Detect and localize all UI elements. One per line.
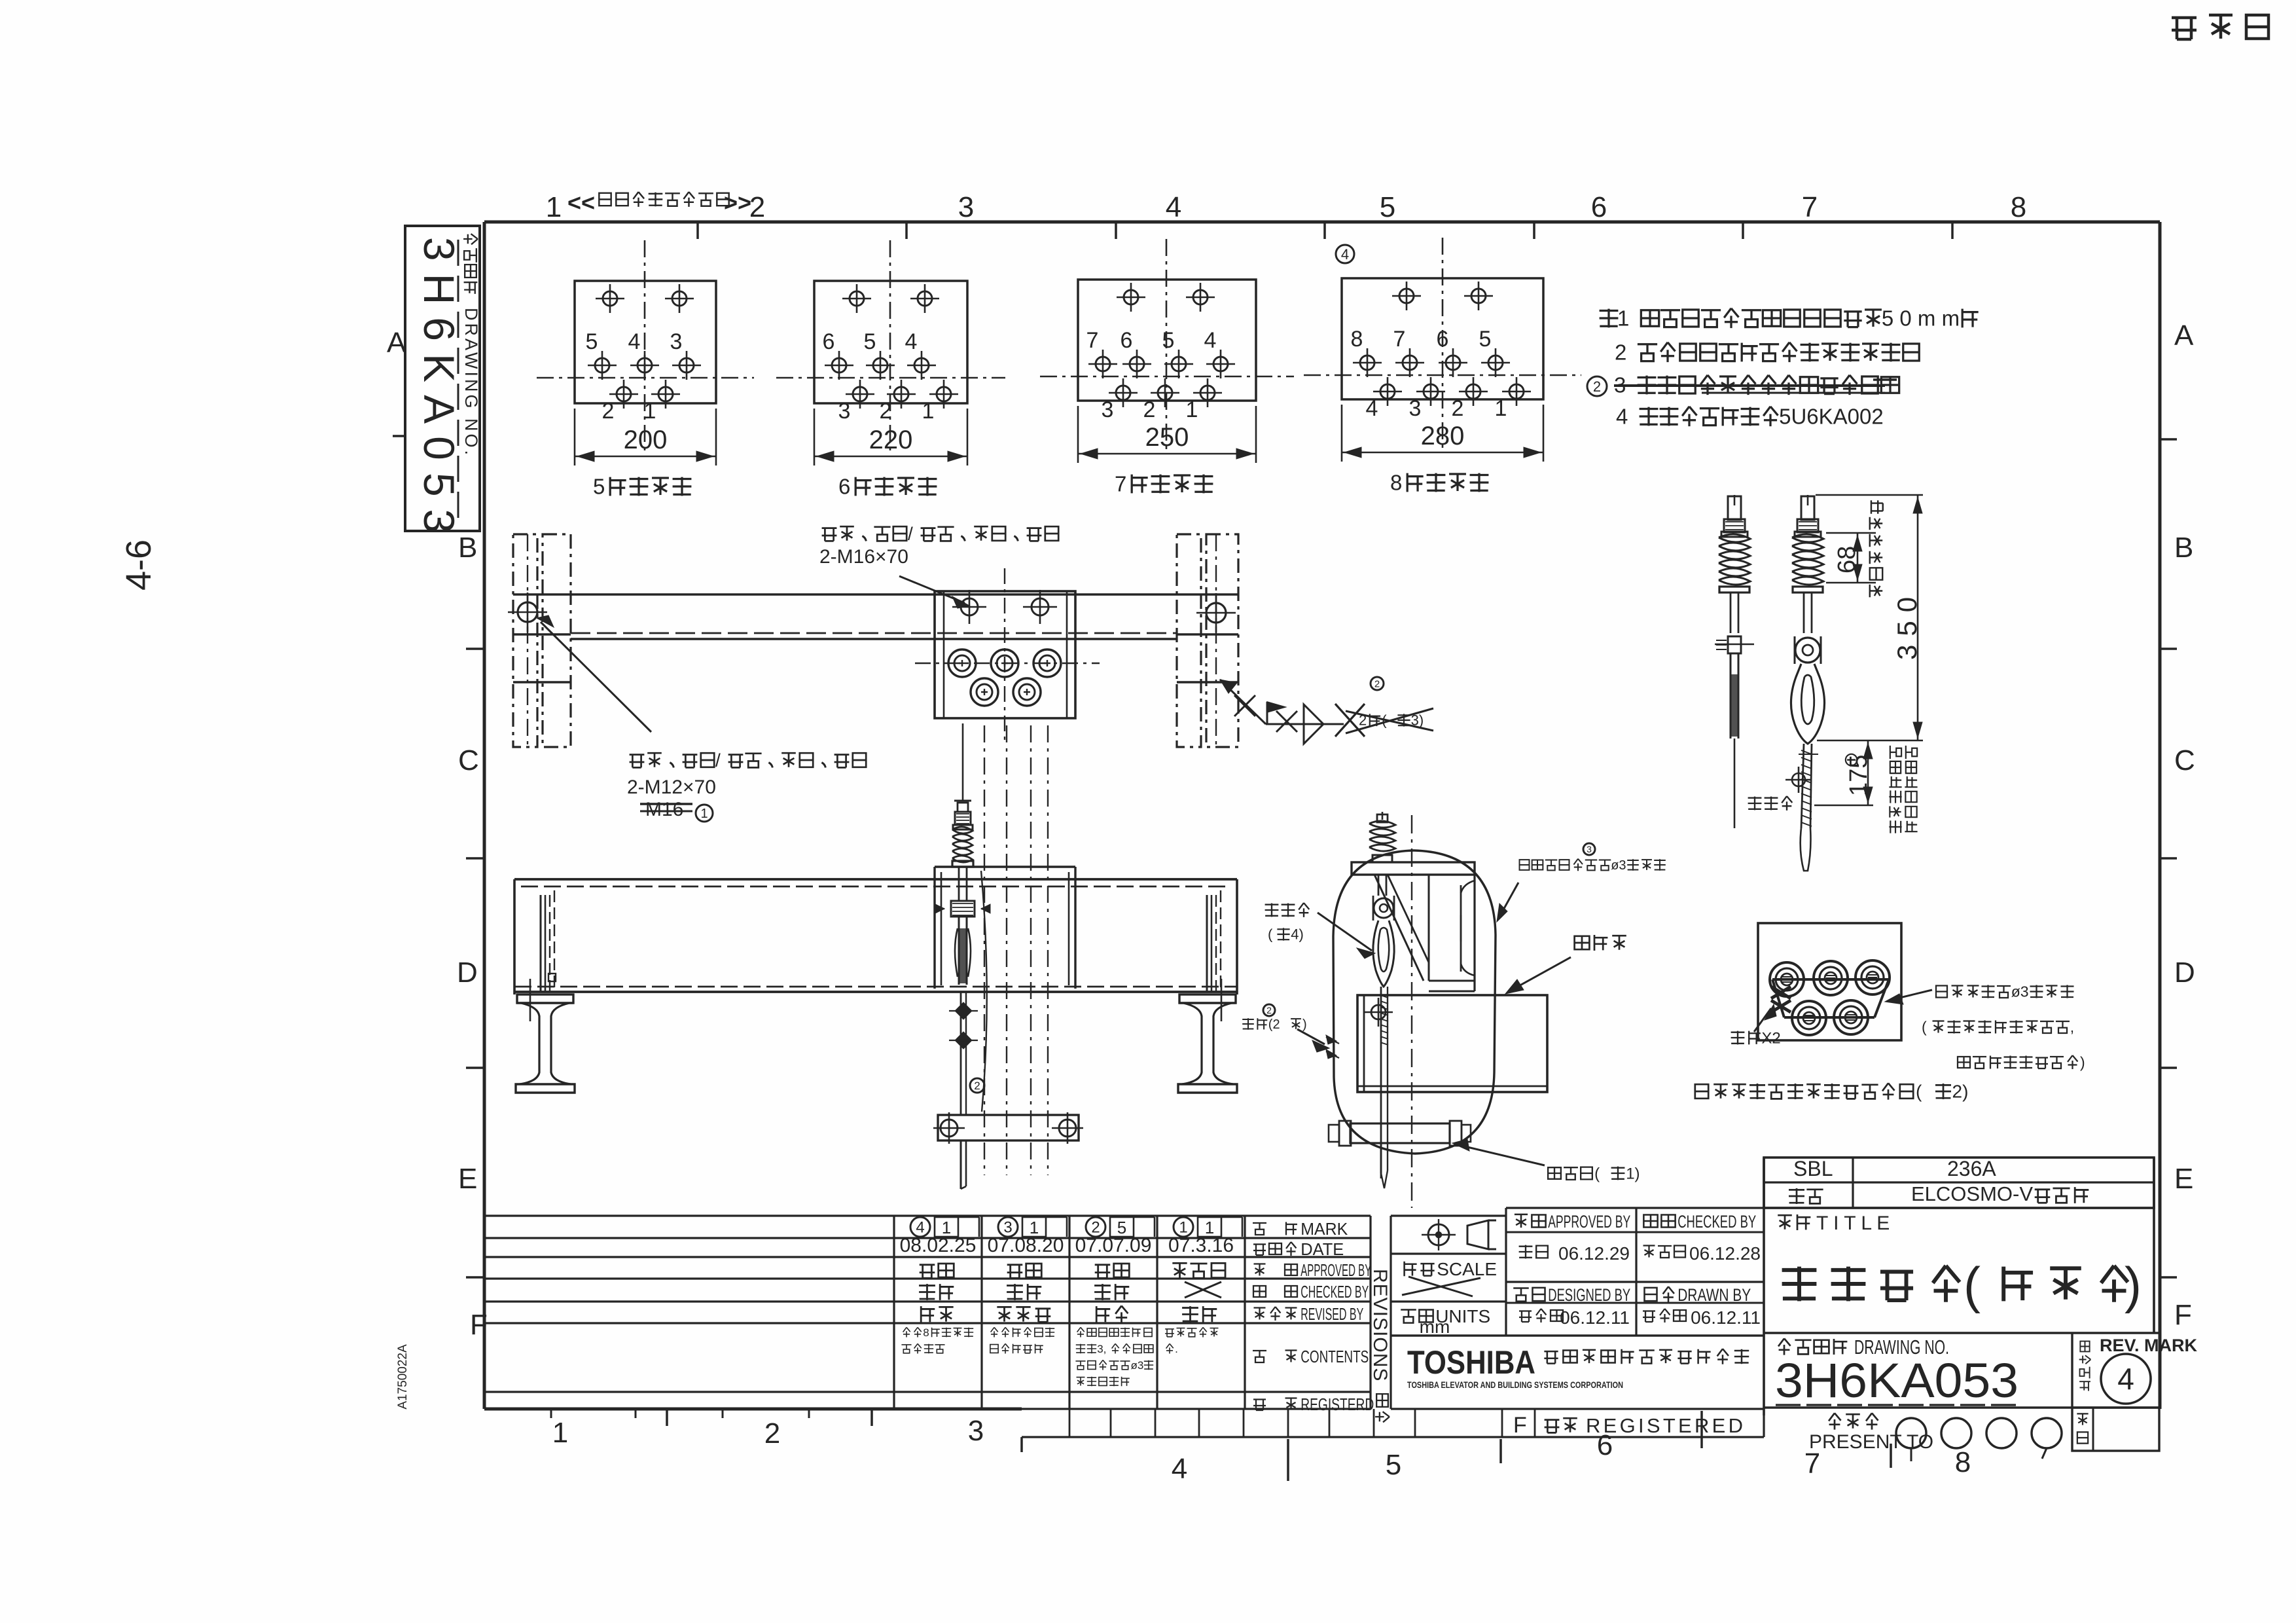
svg-text:/: / — [715, 750, 721, 771]
svg-text:): ) — [1302, 1017, 1307, 1032]
svg-text:4: 4 — [905, 329, 918, 354]
svg-text:1: 1 — [700, 807, 708, 821]
svg-text:3: 3 — [670, 329, 683, 354]
svg-text:>>: >> — [724, 189, 751, 216]
svg-text:SCALE: SCALE — [1437, 1259, 1497, 1279]
svg-text:DRAWN BY: DRAWN BY — [1677, 1285, 1751, 1305]
svg-text:MARK: MARK — [1300, 1219, 1348, 1239]
svg-text:(: ( — [1268, 926, 1273, 943]
svg-text:SBL: SBL — [1793, 1157, 1833, 1180]
svg-text:2: 2 — [764, 1417, 780, 1450]
svg-text:M16: M16 — [645, 799, 683, 820]
svg-text:7: 7 — [1115, 472, 1126, 496]
svg-text:X2: X2 — [1761, 1029, 1780, 1047]
svg-text:A: A — [387, 327, 406, 359]
svg-text:8: 8 — [1390, 471, 1402, 495]
svg-text:08.02.25: 08.02.25 — [900, 1235, 977, 1256]
svg-text:6: 6 — [1121, 328, 1133, 353]
svg-text:T I T L E: T I T L E — [1816, 1213, 1890, 1234]
svg-text:06.12.28: 06.12.28 — [1689, 1243, 1761, 1264]
svg-text:5: 5 — [593, 475, 605, 499]
svg-text:B: B — [2174, 532, 2193, 564]
svg-text:8: 8 — [2011, 191, 2026, 223]
svg-text:F: F — [470, 1309, 488, 1341]
svg-text:F: F — [1513, 1413, 1527, 1438]
svg-text:8: 8 — [1351, 327, 1363, 352]
svg-text:5: 5 — [1386, 1449, 1401, 1481]
svg-text:E: E — [458, 1163, 477, 1195]
svg-text:6: 6 — [1591, 191, 1607, 223]
svg-text:4: 4 — [2117, 1362, 2134, 1396]
svg-text:2: 2 — [749, 191, 765, 223]
svg-text:REVISIONS: REVISIONS — [1369, 1269, 1391, 1381]
svg-text:5: 5 — [1380, 191, 1395, 223]
svg-text:1: 1 — [552, 1417, 568, 1449]
svg-text:2-M16×70: 2-M16×70 — [819, 546, 908, 568]
svg-text:3,: 3, — [1097, 1343, 1106, 1355]
svg-text:236A: 236A — [1947, 1157, 1996, 1180]
svg-text:7: 7 — [1393, 327, 1406, 352]
svg-text:1: 1 — [922, 399, 935, 424]
svg-text:3: 3 — [968, 1415, 984, 1447]
svg-text:TOSHIBA: TOSHIBA — [1407, 1344, 1535, 1381]
svg-text:1): 1) — [1626, 1165, 1640, 1182]
svg-text:A1750022A: A1750022A — [396, 1344, 410, 1410]
svg-text:4): 4) — [1291, 926, 1304, 943]
svg-text:5: 5 — [1479, 327, 1492, 352]
svg-text:07.08.20: 07.08.20 — [988, 1235, 1064, 1256]
svg-text:1: 1 — [546, 191, 562, 223]
svg-text:250: 250 — [1145, 423, 1189, 452]
svg-text:(: ( — [1916, 1082, 1922, 1102]
svg-text:PRESENT TO: PRESENT TO — [1809, 1431, 1933, 1453]
svg-text:C: C — [2174, 744, 2195, 776]
svg-text:5: 5 — [864, 329, 876, 354]
svg-text:3H6KA053: 3H6KA053 — [1775, 1353, 2018, 1408]
svg-text:2: 2 — [880, 399, 892, 424]
svg-text:5: 5 — [1162, 328, 1175, 353]
svg-text:2: 2 — [1091, 1219, 1100, 1237]
svg-text:3: 3 — [1409, 396, 1422, 421]
svg-text:3: 3 — [1003, 1219, 1012, 1237]
svg-text:3: 3 — [1587, 844, 1592, 854]
svg-text:2: 2 — [1374, 678, 1380, 689]
svg-text:3H6KA053: 3H6KA053 — [415, 237, 463, 545]
svg-text:7: 7 — [1086, 328, 1099, 353]
svg-text:06.12.29: 06.12.29 — [1558, 1243, 1630, 1264]
svg-text:6: 6 — [838, 475, 850, 499]
svg-text:07.3.16: 07.3.16 — [1168, 1235, 1234, 1256]
svg-text:3: 3 — [1102, 397, 1114, 422]
svg-text:1: 1 — [644, 399, 656, 424]
svg-text:A: A — [2174, 319, 2194, 352]
svg-text:REGISTERED: REGISTERED — [1586, 1414, 1743, 1437]
svg-text:APPROVED BY: APPROVED BY — [1300, 1260, 1371, 1280]
svg-text:CONTENTS: CONTENTS — [1300, 1347, 1369, 1366]
svg-text:4: 4 — [628, 329, 641, 354]
svg-text:3: 3 — [838, 399, 851, 424]
svg-text:4: 4 — [1172, 1453, 1187, 1485]
svg-text:(: ( — [1922, 1019, 1927, 1036]
svg-text:ø3: ø3 — [2011, 983, 2029, 1000]
svg-text:ELCOSMO-V: ELCOSMO-V — [1911, 1182, 2033, 1205]
svg-text:C: C — [458, 744, 479, 776]
svg-text:ø3: ø3 — [1131, 1359, 1144, 1372]
svg-text:2-M12×70: 2-M12×70 — [627, 776, 716, 798]
svg-text:8: 8 — [923, 1326, 929, 1339]
svg-text:mm: mm — [1420, 1317, 1450, 1337]
svg-text:DESIGNED BY: DESIGNED BY — [1548, 1285, 1630, 1305]
svg-text:1: 1 — [1617, 306, 1629, 331]
svg-text:REGISTERD: REGISTERD — [1300, 1395, 1374, 1414]
svg-text:ø3: ø3 — [1611, 858, 1626, 873]
svg-text:TOSHIBA ELEVATOR AND BUILDING: TOSHIBA ELEVATOR AND BUILDING SYSTEMS CO… — [1407, 1379, 1623, 1390]
svg-text:8: 8 — [1955, 1446, 1971, 1478]
svg-text:⊖: ⊖ — [1843, 749, 1859, 771]
svg-text:6: 6 — [823, 329, 835, 354]
svg-text:2: 2 — [1143, 397, 1156, 422]
svg-text:2: 2 — [1615, 340, 1626, 365]
svg-text:2: 2 — [602, 399, 615, 424]
svg-text:<<: << — [567, 189, 595, 216]
svg-text:4: 4 — [1341, 246, 1349, 263]
svg-text:280: 280 — [1421, 422, 1465, 450]
svg-text:REVISED BY: REVISED BY — [1300, 1304, 1363, 1324]
svg-text:5 0 m m: 5 0 m m — [1882, 306, 1960, 331]
svg-text:DRAWING NO.: DRAWING NO. — [461, 308, 481, 458]
svg-text:): ) — [2080, 1054, 2085, 1071]
svg-text:2: 2 — [1593, 378, 1601, 395]
svg-text:6: 6 — [1437, 327, 1449, 352]
svg-text:200: 200 — [624, 426, 668, 454]
svg-text:E: E — [2174, 1163, 2193, 1195]
svg-text:F: F — [2174, 1299, 2192, 1331]
svg-text:D: D — [2174, 957, 2195, 989]
svg-text:/: / — [908, 524, 913, 544]
svg-text:1: 1 — [1186, 397, 1198, 422]
svg-text:,: , — [2070, 1019, 2074, 1036]
svg-text:4: 4 — [1166, 191, 1181, 223]
svg-text:06.12.11: 06.12.11 — [1691, 1307, 1761, 1328]
svg-text:D: D — [457, 957, 478, 989]
svg-text:4: 4 — [1204, 328, 1217, 353]
svg-text:(: ( — [1594, 1165, 1600, 1182]
svg-text:.: . — [1175, 1343, 1178, 1355]
svg-text:CHECKED BY: CHECKED BY — [1677, 1212, 1756, 1231]
svg-text:REV. MARK: REV. MARK — [2100, 1336, 2198, 1355]
svg-text:APPROVED BY: APPROVED BY — [1548, 1212, 1630, 1231]
svg-text:07.07.09: 07.07.09 — [1075, 1235, 1152, 1256]
svg-text:2: 2 — [1452, 396, 1464, 421]
svg-text:220: 220 — [869, 426, 913, 454]
svg-text:): ) — [2125, 1256, 2142, 1314]
svg-text:4: 4 — [916, 1219, 924, 1237]
svg-text:DATE: DATE — [1300, 1239, 1344, 1259]
svg-text:2: 2 — [974, 1080, 980, 1092]
svg-text:3: 3 — [958, 191, 974, 223]
svg-text:2): 2) — [1952, 1082, 1969, 1102]
svg-text:68: 68 — [1833, 546, 1861, 574]
svg-text:1: 1 — [1179, 1219, 1187, 1237]
svg-text:2: 2 — [1266, 1005, 1272, 1015]
svg-text:4: 4 — [1616, 405, 1628, 429]
svg-text:06.12.11: 06.12.11 — [1560, 1307, 1630, 1328]
svg-text:(2: (2 — [1268, 1017, 1280, 1032]
svg-text:5: 5 — [586, 329, 598, 354]
svg-text:7: 7 — [1802, 191, 1818, 223]
svg-text:350: 350 — [1892, 589, 1922, 660]
svg-text:(: ( — [1964, 1256, 1981, 1314]
svg-text:1: 1 — [1495, 396, 1507, 421]
svg-text:CHECKED BY: CHECKED BY — [1300, 1282, 1369, 1302]
svg-text:4: 4 — [1366, 396, 1378, 421]
svg-text:4-6: 4-6 — [119, 539, 158, 591]
svg-text:5U6KA002: 5U6KA002 — [1779, 405, 1884, 429]
